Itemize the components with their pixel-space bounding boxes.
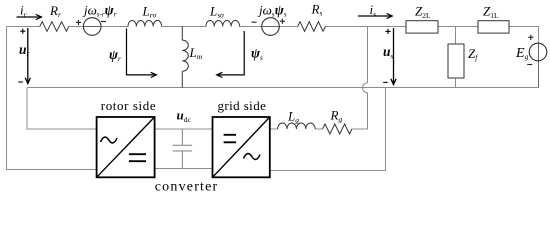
capacitor C dc-link [173, 129, 192, 169]
minus sign of u_r [18, 81, 23, 83]
wire between R_r and source1 [69, 26, 84, 28]
plus sign of source U2 [280, 19, 285, 24]
inductor L_m shunt [182, 27, 188, 88]
wire PCC vertical lower to Rg [352, 93, 368, 129]
wire Lg to Rg [315, 128, 322, 130]
wire right edge through Eg to middle rail [538, 44, 540, 88]
wire Lrs to Lss passing node Lm [162, 26, 206, 28]
minus sign of source U1 [101, 21, 106, 23]
wire grid box bottom return [270, 88, 386, 171]
arrow i_r [17, 14, 42, 19]
arrow psi_r [127, 29, 157, 78]
wire grid box to Lg [270, 128, 278, 130]
wire Z1L to right edge [509, 26, 539, 28]
svg-text:grid side: grid side [218, 98, 267, 113]
grid source E_g [529, 43, 547, 61]
svg-text:converter: converter [155, 180, 219, 195]
inductor L_g [278, 123, 316, 129]
minus sign of E_g [527, 64, 532, 66]
wire source1 to Lrs [101, 26, 128, 28]
wire hop over middle rail [363, 83, 368, 93]
plus sign of u_s [385, 29, 390, 34]
wire Lss to source2 [240, 26, 262, 28]
inductor L_ssigma [206, 20, 240, 26]
arrow u_s [391, 28, 396, 85]
rotor side converter box [97, 117, 155, 177]
wire Zf branch bottom [455, 78, 457, 88]
wire middle rail [27, 87, 539, 89]
wire Z2L to Z1L passing node Zf [438, 26, 478, 28]
arrow u_r [25, 28, 30, 84]
arrow i_s [358, 13, 392, 18]
resistor R_g [323, 124, 352, 134]
arrow psi_s [217, 31, 245, 78]
minus sign of u_s [383, 81, 388, 83]
voltage source U2 jw_s psi_s [262, 18, 280, 36]
impedance Z_1L [478, 21, 509, 33]
wire left outer edge [7, 27, 97, 170]
wire Rs to Z2L passing node PCC [326, 26, 407, 28]
wire dc link bottom [155, 168, 213, 170]
wire dc link top [155, 128, 213, 130]
minus sign of source U2 [252, 21, 257, 23]
wire PCC vertical upper [367, 27, 369, 83]
wire chord through source1 [83, 26, 101, 28]
plus sign of source U1 [76, 20, 81, 25]
resistor R_r [40, 22, 69, 32]
plus sign of E_g [528, 35, 533, 40]
wire Zf branch top [455, 27, 457, 45]
resistor R_s [298, 22, 326, 32]
wire rotor branch down to converter [27, 88, 97, 130]
wire right edge top to Eg [538, 27, 540, 44]
grid side converter box [213, 117, 270, 177]
wire chord through source2 [262, 26, 280, 28]
voltage source U1 jw(s-r)psi_r [83, 18, 101, 36]
impedance Z_f [448, 44, 464, 78]
wire source2 to Rs [279, 26, 297, 28]
plus sign of u_r [20, 29, 25, 34]
inductor L_rsigma [128, 20, 162, 26]
impedance Z_2L [406, 21, 438, 33]
wire top rail left segment [7, 26, 40, 28]
svg-text:rotor side: rotor side [101, 98, 156, 113]
